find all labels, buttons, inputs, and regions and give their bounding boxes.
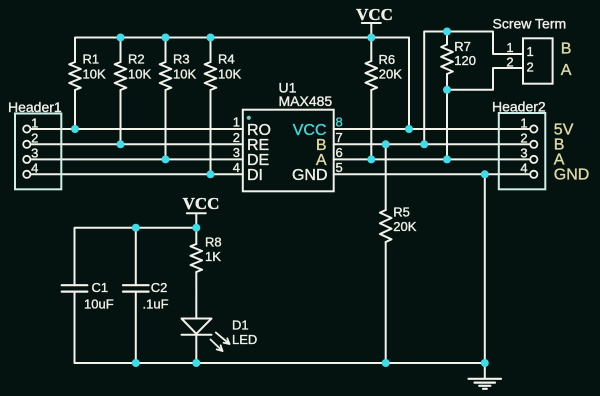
svg-text:C2: C2 xyxy=(151,280,168,295)
svg-text:2: 2 xyxy=(31,131,38,146)
svg-text:3: 3 xyxy=(31,146,38,161)
svg-text:Header1: Header1 xyxy=(8,99,62,115)
svg-text:8: 8 xyxy=(336,115,343,130)
svg-text:1: 1 xyxy=(31,115,38,130)
svg-text:3: 3 xyxy=(520,146,527,161)
svg-text:1: 1 xyxy=(527,44,534,59)
svg-text:20K: 20K xyxy=(393,219,416,234)
svg-text:6: 6 xyxy=(336,145,343,160)
svg-text:1: 1 xyxy=(520,115,527,130)
svg-text:DI: DI xyxy=(247,167,263,184)
svg-text:GND: GND xyxy=(554,167,590,184)
svg-text:10K: 10K xyxy=(83,66,106,81)
svg-text:4: 4 xyxy=(520,161,527,176)
svg-text:VCC: VCC xyxy=(183,194,220,213)
svg-text:7: 7 xyxy=(336,130,343,145)
svg-text:B: B xyxy=(561,40,572,57)
svg-text:VCC: VCC xyxy=(356,5,393,24)
svg-text:10K: 10K xyxy=(173,66,196,81)
svg-text:R6: R6 xyxy=(379,52,396,67)
svg-text:20K: 20K xyxy=(379,67,402,82)
svg-text:1: 1 xyxy=(506,40,513,55)
svg-text:10K: 10K xyxy=(128,66,151,81)
svg-text:R3: R3 xyxy=(173,51,190,66)
svg-text:2: 2 xyxy=(233,130,240,145)
svg-text:120: 120 xyxy=(454,53,476,68)
svg-text:.1uF: .1uF xyxy=(143,297,169,312)
svg-text:10uF: 10uF xyxy=(84,297,114,312)
svg-text:C1: C1 xyxy=(92,280,109,295)
svg-text:LED: LED xyxy=(232,332,257,347)
svg-text:10K: 10K xyxy=(218,66,241,81)
svg-text:D1: D1 xyxy=(232,318,249,333)
svg-text:R7: R7 xyxy=(454,39,471,54)
svg-text:2: 2 xyxy=(520,131,527,146)
svg-text:R2: R2 xyxy=(128,51,145,66)
svg-text:4: 4 xyxy=(233,160,240,175)
svg-text:R8: R8 xyxy=(205,235,222,250)
svg-text:GND: GND xyxy=(292,167,328,184)
svg-text:3: 3 xyxy=(233,145,240,160)
svg-text:4: 4 xyxy=(31,161,38,176)
svg-text:Screw Term: Screw Term xyxy=(493,15,567,31)
svg-text:2: 2 xyxy=(506,54,513,69)
svg-text:Header2: Header2 xyxy=(492,99,546,115)
svg-text:R4: R4 xyxy=(218,51,235,66)
svg-text:5: 5 xyxy=(336,160,343,175)
svg-text:2: 2 xyxy=(527,60,534,75)
svg-text:1K: 1K xyxy=(205,249,221,264)
svg-text:A: A xyxy=(561,62,572,79)
svg-text:R5: R5 xyxy=(393,205,410,220)
svg-text:MAX485: MAX485 xyxy=(279,93,333,109)
svg-text:1: 1 xyxy=(233,115,240,130)
svg-text:R1: R1 xyxy=(83,51,100,66)
